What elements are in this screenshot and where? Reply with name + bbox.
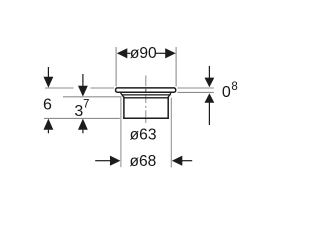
- right taper under flange: [168, 93, 171, 97]
- svg-text:6: 6: [43, 97, 52, 114]
- left taper under flange: [121, 93, 124, 97]
- flange disc (top bar of collar, dia 90): [116, 88, 176, 92]
- extension line left for dia 68: [120, 98, 122, 168]
- dimension dia 68: right shaft and arrowhead (pointing left): [172, 156, 182, 166]
- dimension 6: upper arrow (pointing down): [47, 67, 49, 77]
- dimension dia 90: right arrowhead: [165, 48, 176, 58]
- dimension dia 90: shafts: [127, 52, 130, 54]
- extension line right for dia 90: [175, 47, 177, 86]
- svg-text:0: 0: [222, 84, 231, 101]
- dimension dia 90: left arrowhead: [117, 48, 128, 58]
- dimension dia 68: left shaft and arrowhead (pointing right): [95, 160, 110, 162]
- centerline dot crossing flange bar: [145, 88, 147, 92]
- extension line left for dia 90: [115, 47, 117, 86]
- svg-text:ø63: ø63: [130, 127, 157, 144]
- svg-text:ø90: ø90: [130, 45, 157, 62]
- centerline (vertical dash-dot axis of the collar, x=146): [145, 76, 147, 124]
- dimension 0.8: lower arrowhead (pointing up): [205, 93, 215, 103]
- svg-text:7: 7: [83, 98, 89, 110]
- dimension 0.8: vertical shaft: [208, 66, 210, 78]
- dimension 3.7: upper arrow (pointing down): [82, 74, 84, 86]
- extension line y=88 (flange top, left side, broken around 3.7 arrow): [45, 87, 74, 89]
- dimension 0.8: upper arrowhead (pointing down): [205, 78, 215, 88]
- svg-text:ø68: ø68: [129, 153, 156, 170]
- body left wall: [123, 97, 125, 119]
- extension lines right for 0.8 dim (flange thickness): [177, 87, 213, 89]
- extension line y=118.4 (body bottom, shared by 6 and 3.7 dims): [44, 117, 120, 119]
- dimension 6: lower arrow (pointing up): [44, 119, 54, 130]
- dimension 3.7: lower arrow (pointing up): [78, 119, 88, 130]
- body bottom edge: [123, 117, 169, 119]
- cone edge ring 2 under flange: [123, 97, 168, 99]
- extension line y=96.8 (flange underside for 3.7 dim): [63, 96, 122, 98]
- svg-text:8: 8: [231, 81, 237, 93]
- cone edge ring 1 under flange: [121, 94, 170, 96]
- body right wall: [167, 97, 169, 119]
- extension line right for dia 68: [170, 98, 172, 168]
